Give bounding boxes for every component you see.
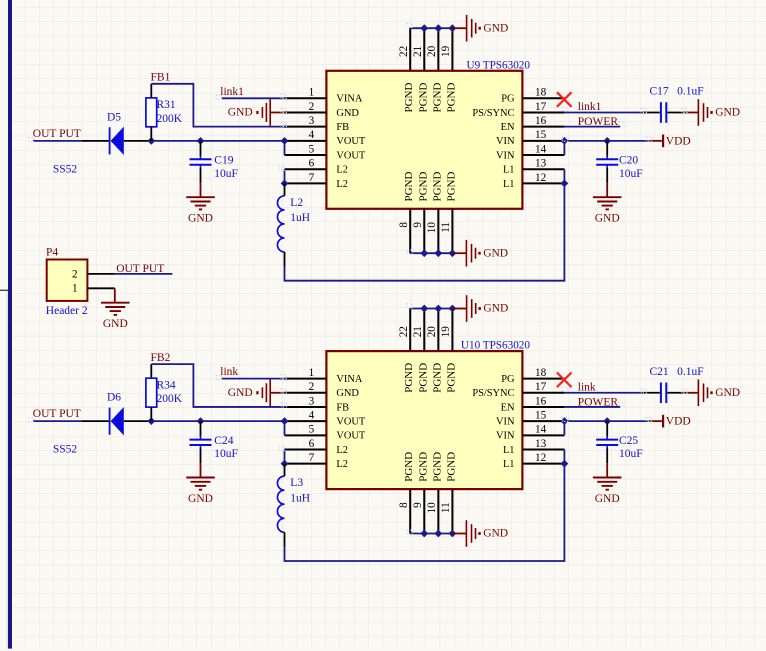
pin 9 (PGND) bottom stub — [412, 452, 429, 534]
ground GND power port (bottom) — [466, 520, 508, 547]
pin 1 (VINA) stub + number — [285, 87, 363, 105]
pin 17 (PS/SYNC) stub + number — [472, 381, 564, 399]
svg-text:PS/SYNC: PS/SYNC — [472, 108, 514, 119]
svg-text:PGND: PGND — [417, 171, 429, 201]
svg-text:link1: link1 — [578, 101, 602, 113]
power port VDD — [650, 135, 691, 148]
pin 12 (L1) stub + number — [503, 452, 564, 470]
svg-text:VDD: VDD — [666, 135, 691, 147]
junction at pin 7 — [281, 179, 289, 187]
capacitor C24 10uF — [190, 421, 238, 463]
junction VIN pins — [561, 137, 569, 145]
svg-text:0.1uF: 0.1uF — [677, 86, 704, 98]
svg-text:VOUT: VOUT — [336, 431, 366, 442]
svg-text:1: 1 — [309, 87, 315, 99]
junction bottom pin 11 — [449, 530, 457, 538]
svg-text:10uF: 10uF — [619, 448, 643, 460]
svg-text:U9 TPS63020: U9 TPS63020 — [466, 59, 530, 71]
pin 9 (PGND) bottom stub — [412, 171, 429, 253]
junction at VOUT pins — [281, 137, 289, 145]
svg-text:GND: GND — [483, 303, 508, 315]
svg-text:VINA: VINA — [336, 374, 362, 385]
sheet edge tick — [0, 290, 8, 649]
svg-text:GND: GND — [188, 213, 213, 225]
svg-text:9: 9 — [412, 502, 424, 508]
svg-text:GND: GND — [228, 387, 253, 399]
capacitor C17 0.1uF — [642, 86, 704, 123]
svg-text:22: 22 — [398, 46, 410, 57]
svg-text:PGND: PGND — [445, 363, 457, 393]
capacitor C25 10uF — [596, 421, 642, 463]
junction at pin 7 — [281, 460, 289, 468]
pin 18 (PG) stub + number — [501, 87, 564, 105]
svg-text:19: 19 — [440, 326, 452, 338]
svg-text:7: 7 — [309, 172, 315, 184]
wire main output bus — [151, 420, 284, 422]
svg-text:10: 10 — [426, 222, 438, 234]
pin 1 (VINA) stub + number — [285, 367, 363, 385]
ground GND power port at pin 2 — [228, 99, 285, 126]
svg-text:5: 5 — [309, 424, 315, 436]
svg-text:FB: FB — [336, 122, 349, 133]
junction at cap C20 tap — [603, 137, 611, 145]
pin 1 stub of P4 — [87, 287, 114, 289]
svg-text:C21: C21 — [650, 366, 669, 378]
wire VOUT pin 5 drop — [284, 421, 286, 435]
svg-text:14: 14 — [535, 143, 547, 155]
pin 16 (EN) stub + number — [501, 395, 565, 413]
svg-text:VIN: VIN — [496, 417, 515, 428]
ground GND power port right of C17 — [683, 99, 740, 126]
svg-text:GND: GND — [336, 388, 359, 399]
pin 7 (L2) stub + number — [285, 452, 348, 470]
svg-text:18: 18 — [535, 367, 547, 379]
net label POWER + wire pin 16 — [564, 396, 620, 408]
pin 11 (PGND) bottom stub — [440, 452, 457, 534]
svg-text:C17: C17 — [650, 86, 669, 98]
svg-text:Header 2: Header 2 — [46, 305, 88, 317]
svg-text:PGND: PGND — [431, 82, 443, 112]
svg-text:10uF: 10uF — [619, 168, 643, 180]
pin 5 (VOUT) stub + number — [285, 424, 366, 442]
resistor R34 200K — [146, 364, 183, 421]
connector P4 Header 2 — [46, 247, 88, 317]
pin 13 (L1) stub + number — [503, 158, 564, 176]
svg-text:18: 18 — [535, 87, 547, 99]
svg-text:GND: GND — [483, 528, 508, 540]
svg-text:PG: PG — [501, 94, 515, 105]
svg-text:PGND: PGND — [403, 452, 415, 482]
net label FB2 + feedback wire — [151, 352, 285, 407]
wire to bottom GND port — [452, 252, 466, 254]
svg-text:200K: 200K — [157, 113, 183, 125]
svg-text:1uH: 1uH — [290, 493, 310, 505]
svg-text:P4: P4 — [46, 247, 58, 259]
svg-text:10: 10 — [426, 502, 438, 514]
svg-text:VDD: VDD — [666, 416, 691, 428]
net label link (left) + wire to pin 1 — [220, 366, 284, 378]
junction at cap C24 tap — [197, 417, 205, 425]
pin 8 (PGND) bottom stub — [398, 452, 415, 534]
svg-text:SS52: SS52 — [53, 444, 78, 456]
svg-text:L1: L1 — [503, 445, 515, 456]
svg-text:GND: GND — [188, 493, 213, 505]
svg-text:8: 8 — [398, 222, 410, 228]
svg-text:21: 21 — [412, 46, 424, 57]
wire to bottom GND port — [452, 533, 466, 535]
pin 22 (PGND) top stub — [398, 309, 415, 393]
inductor L3 1uH — [277, 464, 310, 547]
svg-text:5: 5 — [309, 143, 315, 155]
ground (earth) below C19 — [186, 183, 215, 225]
node endpoint marks (faint dotted) — [29, 304, 688, 534]
svg-text:SS52: SS52 — [53, 163, 78, 175]
svg-text:PG: PG — [501, 374, 515, 385]
pin 4 (VOUT) stub + number — [285, 129, 366, 147]
wire L2 pins 6-7 link — [284, 169, 286, 183]
inductor L2 1uH — [277, 183, 310, 266]
svg-text:12: 12 — [535, 172, 546, 184]
svg-text:10uF: 10uF — [214, 448, 238, 460]
junction VIN pins — [561, 417, 569, 425]
capacitor C21 0.1uF — [642, 366, 704, 403]
svg-text:L2: L2 — [336, 445, 348, 456]
wire L2 pins 6-7 link — [284, 450, 286, 464]
net label POWER + wire pin 16 — [564, 116, 620, 128]
wire inductor to L1 pins — [285, 450, 565, 562]
net label link1 (left) + wire to pin 1 — [220, 86, 284, 98]
svg-text:D6: D6 — [107, 392, 121, 404]
svg-text:1: 1 — [309, 367, 315, 379]
svg-text:13: 13 — [535, 438, 547, 450]
junction at VOUT pins — [281, 417, 289, 425]
op-amp/converter IC U9 body — [326, 71, 522, 209]
capacitor C19 10uF — [190, 141, 238, 183]
wire to top GND port — [452, 27, 466, 29]
svg-text:GND: GND — [483, 247, 508, 259]
pin 11 (PGND) bottom stub — [440, 171, 457, 253]
svg-text:6: 6 — [309, 158, 315, 170]
svg-text:L1: L1 — [503, 459, 515, 470]
pin 3 (FB) stub + number — [285, 395, 350, 413]
svg-text:17: 17 — [535, 381, 547, 393]
pin 19 (PGND) top stub — [440, 28, 457, 112]
pin 15 (VIN) stub + number — [496, 129, 564, 147]
power port VDD — [650, 415, 691, 428]
pin 7 (L2) stub + number — [285, 172, 348, 190]
ground (earth) below C20 — [593, 183, 622, 225]
svg-text:7: 7 — [309, 452, 315, 464]
wire VIN bus — [564, 421, 649, 435]
svg-text:link: link — [220, 366, 238, 378]
pin 22 (PGND) top stub — [398, 28, 415, 112]
svg-text:1uH: 1uH — [290, 212, 310, 224]
wire top PGND bus — [410, 308, 452, 310]
junction bottom pin 11 — [449, 249, 457, 257]
svg-text:VOUT: VOUT — [336, 150, 366, 161]
svg-text:GND: GND — [595, 213, 620, 225]
ground (earth) below C24 — [186, 463, 215, 505]
ground (earth) below C25 — [593, 463, 622, 505]
junction at pin 12 — [561, 460, 569, 468]
svg-text:22: 22 — [398, 326, 410, 337]
svg-text:2: 2 — [72, 268, 78, 280]
no-ERC marker (red X) at pin 18 — [557, 92, 572, 107]
svg-text:11: 11 — [440, 222, 452, 233]
node endpoint marks (faint dotted) — [29, 24, 688, 254]
designator label U10 TPS63020 — [461, 340, 531, 352]
pin 8 (PGND) bottom stub — [398, 171, 415, 253]
junction at resistor tap — [147, 137, 155, 145]
svg-text:L1: L1 — [503, 165, 515, 176]
junction top pin 20 — [434, 305, 442, 313]
wire main output bus — [151, 140, 284, 142]
svg-text:200K: 200K — [157, 393, 183, 405]
svg-text:PGND: PGND — [403, 363, 415, 393]
net label OUT PUT — [33, 128, 81, 141]
svg-text:13: 13 — [535, 158, 547, 170]
svg-text:GND: GND — [483, 22, 508, 34]
ground GND power port (top) — [467, 15, 509, 42]
svg-text:L1: L1 — [503, 179, 515, 190]
svg-text:R31: R31 — [157, 99, 176, 111]
svg-text:VOUT: VOUT — [336, 136, 366, 147]
svg-text:3: 3 — [309, 115, 315, 127]
pin 21 (PGND) top stub — [412, 309, 429, 393]
pin 2 (GND) stub + number — [285, 381, 360, 399]
wire VOUT pin 5 drop — [284, 141, 286, 155]
pin 15 (VIN) stub + number — [496, 410, 564, 428]
ground GND power port (bottom) — [466, 240, 508, 267]
svg-text:C19: C19 — [214, 155, 233, 167]
pin 20 (PGND) top stub — [426, 28, 443, 112]
net label OUT PUT — [33, 408, 81, 421]
svg-text:2: 2 — [309, 101, 315, 113]
svg-text:GND: GND — [103, 318, 128, 330]
svg-text:6: 6 — [309, 438, 315, 450]
svg-text:L3: L3 — [290, 477, 303, 489]
svg-text:C25: C25 — [619, 435, 638, 447]
sheet border bar — [8, 0, 12, 649]
junction at cap C25 tap — [603, 417, 611, 425]
pin 19 (PGND) top stub — [440, 309, 457, 393]
pin 10 (PGND) bottom stub — [426, 452, 443, 534]
junction bottom pin 10 — [434, 530, 442, 538]
svg-text:4: 4 — [309, 129, 315, 141]
junction top pin 19 — [449, 305, 457, 313]
svg-text:21: 21 — [412, 326, 424, 337]
svg-text:L2: L2 — [336, 179, 348, 190]
pin 2 stub of P4 — [87, 273, 114, 275]
wire top PGND bus — [410, 27, 452, 29]
svg-text:GND: GND — [715, 387, 740, 399]
pin 3 (FB) stub + number — [285, 115, 350, 133]
net label OUT PUT at P4 — [115, 263, 173, 275]
junction at pin 12 — [561, 179, 569, 187]
pin 5 (VOUT) stub + number — [285, 143, 366, 161]
svg-text:PGND: PGND — [445, 452, 457, 482]
svg-text:20: 20 — [426, 45, 438, 57]
op-amp/converter IC U10 body — [326, 351, 522, 489]
pin 14 (VIN) stub + number — [496, 143, 564, 161]
net label link1 (right) + wire pin 17 — [564, 101, 641, 113]
svg-text:8: 8 — [398, 502, 410, 508]
svg-text:VIN: VIN — [496, 150, 515, 161]
svg-text:GND: GND — [715, 107, 740, 119]
designator label U9 TPS63020 — [466, 59, 530, 71]
net label link (right) + wire pin 17 — [564, 382, 641, 394]
pin 10 (PGND) bottom stub — [426, 171, 443, 253]
svg-text:OUT PUT: OUT PUT — [33, 128, 81, 140]
svg-text:FB1: FB1 — [151, 72, 171, 84]
svg-text:VOUT: VOUT — [336, 417, 366, 428]
svg-text:19: 19 — [440, 45, 452, 57]
diode D6 (SS52) — [53, 392, 151, 456]
svg-text:PGND: PGND — [431, 363, 443, 393]
svg-text:link1: link1 — [220, 86, 244, 98]
svg-text:20: 20 — [426, 326, 438, 338]
svg-text:17: 17 — [535, 101, 547, 113]
junction top pin 19 — [449, 24, 457, 32]
wire VIN bus — [564, 141, 649, 155]
svg-text:PGND: PGND — [417, 452, 429, 482]
pin 2 (GND) stub + number — [285, 101, 360, 119]
svg-text:L2: L2 — [336, 459, 348, 470]
svg-text:link: link — [578, 382, 596, 394]
wire bottom PGND bus — [410, 252, 452, 254]
svg-text:PGND: PGND — [417, 82, 429, 112]
pin 14 (VIN) stub + number — [496, 424, 564, 442]
junction bottom pin 9 — [420, 249, 428, 257]
svg-text:L2: L2 — [336, 165, 348, 176]
svg-text:R34: R34 — [157, 380, 176, 392]
svg-text:9: 9 — [412, 222, 424, 228]
svg-text:EN: EN — [501, 402, 515, 413]
svg-text:0.1uF: 0.1uF — [677, 366, 704, 378]
resistor R31 200K — [146, 84, 183, 141]
svg-text:PGND: PGND — [431, 452, 443, 482]
ground GND power port (top) — [467, 295, 509, 322]
pin 6 (L2) stub + number — [285, 158, 348, 176]
svg-text:15: 15 — [535, 410, 547, 422]
capacitor C20 10uF — [596, 141, 642, 183]
junction bottom pin 10 — [434, 249, 442, 257]
svg-text:VIN: VIN — [496, 136, 515, 147]
pin 16 (EN) stub + number — [501, 115, 565, 133]
net label FB1 + feedback wire — [151, 72, 285, 127]
ground (earth) at P4 pin 1 — [101, 288, 130, 330]
svg-text:U10 TPS63020: U10 TPS63020 — [461, 340, 531, 352]
svg-text:VIN: VIN — [496, 431, 515, 442]
svg-text:PGND: PGND — [431, 171, 443, 201]
svg-text:D5: D5 — [107, 111, 121, 123]
junction top pin 20 — [434, 24, 442, 32]
svg-text:PS/SYNC: PS/SYNC — [472, 388, 514, 399]
svg-text:GND: GND — [595, 493, 620, 505]
svg-text:10uF: 10uF — [214, 168, 238, 180]
pin 13 (L1) stub + number — [503, 438, 564, 456]
pin 6 (L2) stub + number — [285, 438, 348, 456]
svg-text:PGND: PGND — [417, 363, 429, 393]
svg-text:15: 15 — [535, 129, 547, 141]
wire to top GND port — [452, 308, 466, 310]
svg-text:3: 3 — [309, 395, 315, 407]
wire inductor to L1 pins — [285, 169, 565, 281]
diode D5 (SS52) — [53, 111, 151, 175]
svg-text:L2: L2 — [290, 197, 303, 209]
pin 17 (PS/SYNC) stub + number — [472, 101, 564, 119]
svg-text:OUT PUT: OUT PUT — [33, 408, 81, 420]
svg-text:VINA: VINA — [336, 94, 362, 105]
ground GND power port at pin 2 — [228, 379, 285, 406]
no-ERC marker (red X) at pin 18 — [557, 373, 572, 388]
svg-text:12: 12 — [535, 452, 546, 464]
svg-text:GND: GND — [336, 108, 359, 119]
svg-text:PGND: PGND — [403, 82, 415, 112]
svg-text:4: 4 — [309, 410, 315, 422]
junction top pin 21 — [420, 305, 428, 313]
svg-text:11: 11 — [440, 502, 452, 513]
pin 12 (L1) stub + number — [503, 172, 564, 190]
pin 20 (PGND) top stub — [426, 309, 443, 393]
wire bottom PGND bus — [410, 533, 452, 535]
svg-text:2: 2 — [309, 381, 315, 393]
svg-text:GND: GND — [228, 107, 253, 119]
junction at resistor tap — [147, 417, 155, 425]
junction bottom pin 9 — [420, 530, 428, 538]
svg-text:EN: EN — [501, 122, 515, 133]
svg-text:FB2: FB2 — [151, 352, 171, 364]
svg-text:1: 1 — [72, 283, 78, 295]
ground GND power port right of C21 — [683, 379, 740, 406]
svg-text:PGND: PGND — [445, 82, 457, 112]
svg-text:FB: FB — [336, 402, 349, 413]
pin 18 (PG) stub + number — [501, 367, 564, 385]
svg-text:C24: C24 — [214, 435, 233, 447]
pin 4 (VOUT) stub + number — [285, 410, 366, 428]
junction top pin 21 — [420, 24, 428, 32]
svg-text:14: 14 — [535, 424, 547, 436]
svg-text:16: 16 — [535, 395, 547, 407]
pin 21 (PGND) top stub — [412, 28, 429, 112]
svg-text:PGND: PGND — [403, 171, 415, 201]
junction at cap C19 tap — [197, 137, 205, 145]
svg-text:PGND: PGND — [445, 171, 457, 201]
svg-text:16: 16 — [535, 115, 547, 127]
svg-text:C20: C20 — [619, 155, 638, 167]
